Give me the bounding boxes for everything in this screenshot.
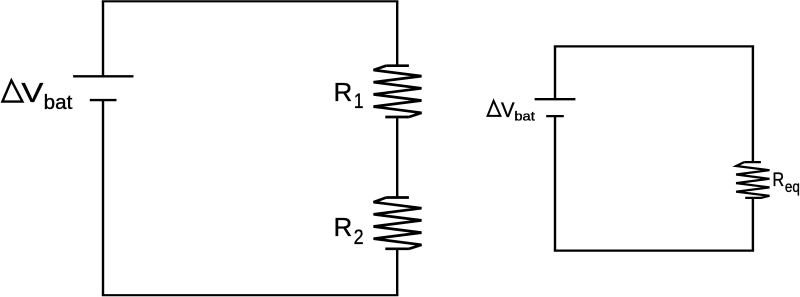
battery B2 long plate (positive) xyxy=(535,98,576,100)
wire: left circuit right vertical upper (to R1) xyxy=(396,1,398,65)
wire: right circuit top horizontal xyxy=(554,45,754,47)
wire: left circuit top horizontal xyxy=(102,0,399,2)
wire: left circuit right vertical middle (R1 to R2) xyxy=(396,117,398,198)
svg-text:R: R xyxy=(334,77,353,107)
wire: left circuit bottom-left vertical (battery bottom lead) xyxy=(102,100,104,295)
battery B2 short plate (negative) xyxy=(546,115,564,117)
svg-text:bat: bat xyxy=(44,92,73,114)
svg-text:R: R xyxy=(334,212,353,242)
wire: left circuit bottom horizontal xyxy=(102,294,399,296)
label ΔV_bat (right circuit) : delta triangle xyxy=(488,101,501,116)
svg-text:2: 2 xyxy=(354,226,364,249)
wire: left circuit top-left vertical (battery top lead) xyxy=(102,1,104,76)
svg-text:V: V xyxy=(501,98,515,122)
label ΔV_bat (left circuit) : delta triangle xyxy=(2,80,22,101)
wire: right circuit right vertical lower (Req to bottom) xyxy=(752,198,754,251)
svg-text:R: R xyxy=(772,169,784,191)
wire: right circuit right vertical upper (to Req) xyxy=(752,46,754,162)
svg-text:bat: bat xyxy=(514,110,535,124)
wire: left circuit right vertical lower (R2 to bottom) xyxy=(396,249,398,295)
resistor Req zigzag xyxy=(736,162,769,198)
svg-text:1: 1 xyxy=(354,90,364,113)
wire: right circuit top-left vertical (battery top lead) xyxy=(554,46,556,99)
svg-text:V: V xyxy=(21,77,43,108)
wire: right circuit bottom horizontal xyxy=(554,250,754,252)
wire: right circuit bottom-left vertical (battery bottom lead) xyxy=(554,116,556,251)
resistor R1 zigzag xyxy=(374,66,422,117)
battery B1 short plate (negative) xyxy=(90,99,117,101)
resistor R2 zigzag xyxy=(374,198,422,249)
svg-text:eq: eq xyxy=(785,179,800,196)
battery B1 long plate (positive) xyxy=(73,75,133,77)
